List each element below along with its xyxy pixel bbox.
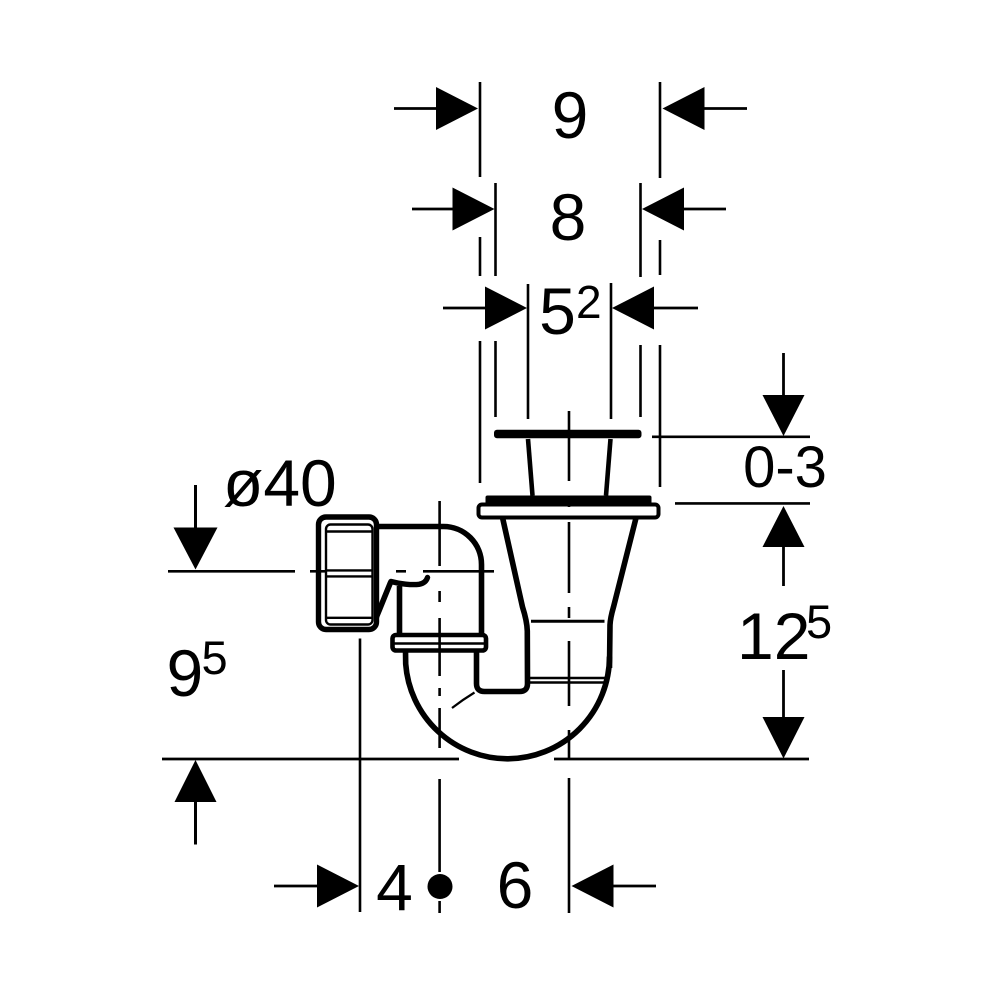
extension line left of dim 52 <box>527 284 530 419</box>
svg-text:6: 6 <box>497 848 534 922</box>
strainer waist left side <box>528 439 533 496</box>
diameter 40 label <box>223 446 337 520</box>
elbow shoulder diagonal <box>374 583 391 624</box>
extension line right of dim 9 <box>659 82 662 487</box>
coupling nut inner outline <box>326 525 373 625</box>
dimension 8 label <box>550 180 587 254</box>
height 125 label <box>737 595 832 673</box>
outlet flange <box>393 635 487 651</box>
body joint line lower <box>530 681 606 683</box>
coupling nut outer body <box>319 517 377 630</box>
inlet vertical centerline <box>568 411 571 913</box>
height 95 up arrow <box>175 760 217 845</box>
diameter 40 leader arrow <box>174 485 218 570</box>
bottom datum line right segment <box>554 758 809 761</box>
adjustment 0-3 bottom reference line <box>675 502 810 505</box>
trap bowl outer arc <box>406 651 610 759</box>
bottom dim 4 label <box>376 851 413 925</box>
svg-text:ø40: ø40 <box>223 446 337 520</box>
coupling nut chamfer line bottom <box>327 617 373 619</box>
height 125 up arrow <box>763 506 805 586</box>
outlet vertical centerline <box>438 501 441 913</box>
svg-text:4: 4 <box>376 851 413 925</box>
adjustment 0-3 down arrow <box>763 353 805 436</box>
dimension 9 left arrow <box>394 87 478 130</box>
body shoulder line <box>531 620 605 623</box>
strainer gasket <box>486 496 652 505</box>
extension line right of dim 8 <box>639 183 642 417</box>
dimension 52 left arrow <box>443 287 527 330</box>
svg-text:0-3: 0-3 <box>743 435 827 500</box>
body cone left side + inlet cylinder left edge + inner ledge + outlet pipe inner edge <box>477 518 528 692</box>
strainer flange <box>479 505 659 518</box>
dimension 9 label <box>552 78 589 152</box>
svg-text:5: 5 <box>202 631 228 684</box>
coupling nut middle line lower <box>327 575 373 577</box>
dimension 9 right arrow <box>663 87 748 130</box>
outlet axis datum line <box>168 570 295 573</box>
extension line right of dim 52 <box>610 283 613 419</box>
adjustment 0-3 label <box>743 435 827 500</box>
bottom datum line left segment <box>162 758 459 761</box>
svg-text:8: 8 <box>550 180 587 254</box>
svg-text:9: 9 <box>167 636 204 710</box>
elbow inner vertical edge <box>397 586 403 635</box>
dimension 8 right arrow <box>642 188 726 231</box>
svg-text:2: 2 <box>576 276 602 328</box>
outlet flange divider line <box>394 642 485 644</box>
bottom dim right arrow <box>572 865 657 908</box>
elbow inner bend hook <box>391 578 428 585</box>
dimension 52 right arrow <box>612 287 698 330</box>
strainer top plate <box>494 430 642 438</box>
svg-text:12: 12 <box>737 599 810 673</box>
extension line at x 360 <box>359 639 362 913</box>
dimension 52 label <box>539 274 601 348</box>
outlet axis centerline dashes <box>310 570 494 573</box>
elbow outer profile <box>376 527 482 636</box>
strainer waist right side <box>606 439 611 496</box>
coupling nut middle line upper <box>327 569 373 571</box>
svg-text:5: 5 <box>806 595 832 648</box>
coupling nut chamfer line top <box>327 530 373 532</box>
body joint line upper <box>530 677 606 679</box>
bottom dim 6 label <box>497 848 534 922</box>
svg-text:9: 9 <box>552 78 589 152</box>
body cone right side + inlet cylinder right edge <box>610 518 637 668</box>
bottom dim reference dot <box>428 874 453 899</box>
adjustment 0-3 top reference line <box>652 435 810 438</box>
inner water-seal leader curve <box>452 693 475 709</box>
height 125 down arrow <box>763 670 805 759</box>
bottom dim left arrow <box>274 865 359 908</box>
extension line left of dim 9 <box>479 82 482 483</box>
dimension 8 left arrow <box>412 188 495 231</box>
extension line left of dim 8 <box>494 183 497 417</box>
label 9 superscript 5 <box>167 631 228 710</box>
svg-text:5: 5 <box>539 274 576 348</box>
